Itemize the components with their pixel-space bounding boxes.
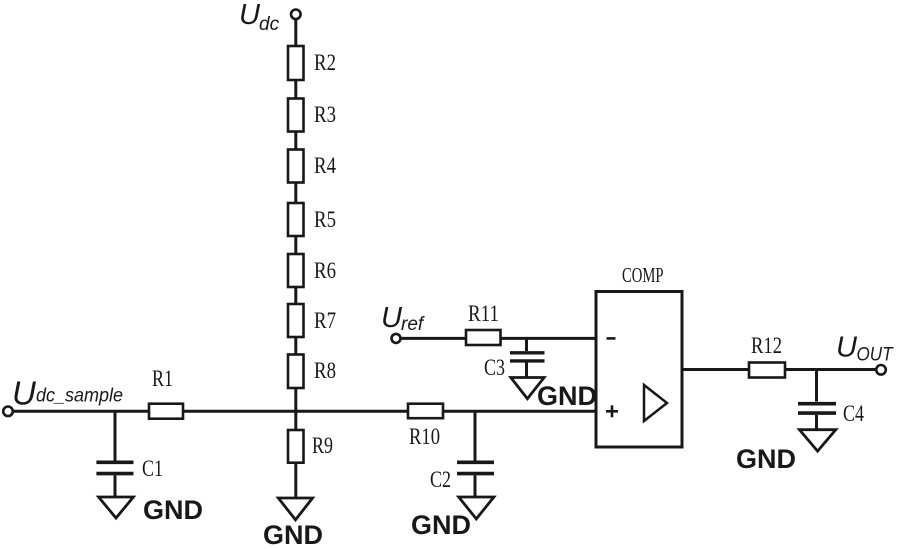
svg-text:R5: R5 — [314, 207, 336, 232]
wire R4-R5 — [294, 183, 297, 204]
svg-text:GND: GND — [143, 495, 203, 525]
node Udc terminal — [291, 10, 301, 20]
wire Udc to R2 — [294, 19, 297, 46]
capacitor C2 — [457, 411, 494, 496]
resistor R4 — [288, 150, 304, 183]
svg-text:ref: ref — [401, 314, 425, 335]
resistor R10 — [408, 404, 443, 419]
svg-text:U: U — [12, 375, 36, 412]
resistor R3 — [288, 99, 304, 132]
svg-text:C2: C2 — [430, 467, 451, 492]
svg-text:U: U — [381, 302, 403, 334]
svg-text:R9: R9 — [312, 433, 333, 458]
wire R6-R7 — [294, 287, 297, 304]
label U_dc — [239, 0, 280, 35]
ground G4 — [511, 378, 544, 399]
op-amp U1 COMP box — [596, 292, 682, 448]
resistor R7 — [288, 304, 304, 337]
resistor R8 — [288, 355, 304, 389]
svg-text:C3: C3 — [484, 355, 505, 380]
resistor R11 — [466, 330, 501, 345]
svg-text:R3: R3 — [314, 102, 336, 127]
svg-text:C1: C1 — [142, 456, 163, 481]
resistor R1 — [149, 404, 183, 419]
resistor R5 — [288, 203, 304, 236]
svg-text:R6: R6 — [314, 258, 336, 283]
pin minus — [607, 337, 616, 340]
capacitor C1 — [96, 411, 133, 496]
resistor R9 — [288, 411, 304, 497]
wire R5-R6 — [294, 236, 297, 254]
svg-text:COMP: COMP — [622, 263, 664, 287]
svg-text:R1: R1 — [152, 366, 173, 391]
wire R2-R3 — [294, 80, 297, 99]
pin plus — [606, 405, 618, 417]
svg-text:GND: GND — [537, 381, 597, 411]
resistor R2 — [288, 46, 304, 80]
svg-text:dc_sample: dc_sample — [36, 386, 123, 407]
wire main horizontal — [13, 410, 596, 413]
svg-text:R7: R7 — [314, 308, 336, 333]
ground G2 — [278, 498, 312, 520]
svg-text:R2: R2 — [314, 50, 336, 75]
label U_ref — [381, 302, 425, 335]
wire Uref to comparator minus — [401, 337, 597, 340]
svg-text:R8: R8 — [314, 358, 336, 383]
capacitor C4 — [798, 370, 836, 430]
node Uref terminal — [392, 334, 401, 343]
svg-text:U: U — [239, 0, 261, 31]
svg-text:GND: GND — [263, 520, 323, 549]
svg-text:R11: R11 — [468, 301, 499, 326]
resistor R12 — [749, 363, 785, 378]
svg-text:R12: R12 — [751, 333, 782, 358]
ground G5 — [799, 430, 835, 451]
svg-text:U: U — [836, 332, 858, 364]
wire R8 to main node — [294, 388, 297, 411]
label U_OUT — [836, 332, 894, 366]
svg-text:GND: GND — [411, 510, 471, 540]
resistor R6 — [288, 254, 304, 287]
node Uout terminal — [876, 365, 886, 375]
ground G1 — [99, 497, 134, 518]
svg-text:GND: GND — [736, 444, 796, 474]
node Udc_sample terminal — [3, 407, 13, 417]
svg-text:OUT: OUT — [857, 345, 894, 366]
svg-text:R10: R10 — [409, 424, 440, 449]
buffer triangle inside comparator — [644, 385, 667, 421]
svg-text:dc: dc — [259, 14, 280, 35]
wire R3-R4 — [294, 132, 297, 150]
wire comparator output — [682, 368, 877, 371]
label U_dc_sample — [12, 375, 123, 412]
ground G3 — [459, 497, 494, 519]
svg-text:C4: C4 — [843, 401, 864, 426]
svg-text:R4: R4 — [314, 153, 336, 178]
wire R7-R8 — [294, 337, 297, 355]
capacitor C3 — [510, 338, 545, 377]
